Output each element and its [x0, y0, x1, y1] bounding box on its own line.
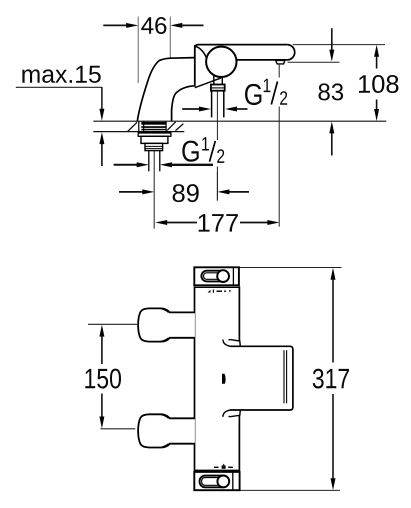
collar: [211, 85, 225, 91]
top cap rectangle: [194, 267, 239, 285]
317 bottom extension line: [240, 489, 340, 491]
body left edge: [194, 45, 196, 87]
label 83: [319, 83, 344, 100]
outlet block double line: [283, 350, 285, 403]
body bottom line: [195, 469, 240, 471]
block bottom fillet: [223, 410, 230, 417]
dimension 89 right extension line: [216, 172, 218, 201]
washer below deck: [138, 132, 171, 137]
G1/2 lower dimension left arrow: [114, 164, 138, 166]
dimension 317 top arrow: [331, 268, 336, 280]
dimension 46 extension line left: [137, 17, 139, 84]
extension line lever top: [293, 44, 385, 46]
bottom handle: [138, 414, 195, 447]
deck top line: [93, 120, 386, 122]
G1/2 upper dimension right arrow: [225, 107, 237, 112]
threaded shank: [145, 143, 163, 150]
dimension 89 left arrow: [119, 191, 144, 193]
top cap inner pill: [204, 273, 224, 280]
outlet block: [230, 346, 293, 410]
max.15 arrow up to deck bottom: [99, 132, 104, 144]
dimension 150 bottom arrow: [101, 394, 103, 418]
label 46: [141, 17, 166, 34]
G1/2 lower dimension right arrow: [160, 162, 172, 167]
label 89: [173, 184, 199, 202]
label 177: [199, 214, 238, 232]
bottom cap button circle: [217, 476, 229, 488]
bottom cap outer pill: [200, 476, 229, 488]
dimension 46 left arrow: [103, 24, 127, 26]
body bottom edge to collar: [195, 78, 221, 88]
top cap button circle: [217, 270, 229, 282]
tail pipe centerline: [153, 151, 155, 229]
dimension 150 top extension: [88, 323, 137, 325]
tail pipe: [148, 151, 150, 172]
inlet pipe centerline: [216, 91, 218, 140]
max.15 arrow down to deck top: [99, 109, 104, 121]
aerator outlet tab: [276, 60, 285, 64]
label 317: [313, 369, 349, 389]
deck bottom line: [93, 131, 184, 133]
dimension 177 left arrow: [155, 220, 167, 225]
dimension 177 right arrow: [240, 222, 268, 224]
extension line aerator bottom: [288, 61, 340, 63]
max.15 leader underline: [16, 86, 103, 88]
dimension 83 lower arrow: [329, 121, 334, 133]
neck under knob: [213, 74, 215, 85]
cap shoulder curve: [196, 46, 208, 60]
dimension 46 extension line right: [169, 17, 171, 60]
dimension 89 right arrow: [217, 189, 229, 194]
inlet pipe: [211, 91, 213, 118]
body top line: [195, 286, 239, 288]
bottom cap divider: [232, 472, 234, 490]
dimension 150 bottom extension: [101, 428, 136, 430]
body left edge: [194, 286, 196, 471]
dimension 317 bottom arrow: [332, 394, 334, 480]
dimension 83 upper arrow: [331, 28, 333, 51]
dimension 150 top arrow: [99, 325, 104, 337]
dimension 46 right arrow: [182, 24, 204, 26]
label G1/2 upper: [245, 79, 287, 105]
body right edge lower: [238, 415, 240, 471]
label 150: [85, 369, 121, 389]
bottom cap rectangle: [194, 472, 239, 490]
dimension 108 upper arrow: [374, 45, 379, 57]
top handle: [138, 308, 195, 341]
outlet crescent mark: [222, 374, 226, 384]
label G1/2 lower: [182, 137, 224, 163]
deck hatching: [127, 122, 183, 132]
G1/2 upper dimension left arrow: [182, 108, 200, 110]
lever bottom line: [236, 59, 288, 61]
bottom handle notch: [161, 414, 169, 418]
lever right rounded end: [288, 45, 295, 60]
label 108: [359, 75, 399, 93]
top cap outer pill: [201, 271, 228, 282]
spout inner outline: [172, 86, 195, 121]
bottom cap inner pill: [202, 478, 222, 486]
block top fillet: [223, 340, 230, 347]
seal bars between deck lines: [141, 122, 166, 125]
dimension 108 lower arrow: [376, 100, 378, 111]
max.15 leader vertical: [101, 87, 103, 110]
top markings: [208, 290, 232, 293]
aerator extension line: [278, 64, 280, 78]
lever top line: [195, 45, 288, 48]
bottom markings: [214, 464, 233, 469]
317 top extension line: [239, 267, 342, 269]
top cap divider: [232, 267, 234, 285]
body right edge upper: [238, 286, 240, 341]
spout outer outline: [137, 58, 194, 122]
top handle notch: [161, 309, 169, 313]
mounting nut: [141, 136, 168, 143]
label max.15: [22, 66, 100, 83]
knob circle: [206, 47, 236, 77]
